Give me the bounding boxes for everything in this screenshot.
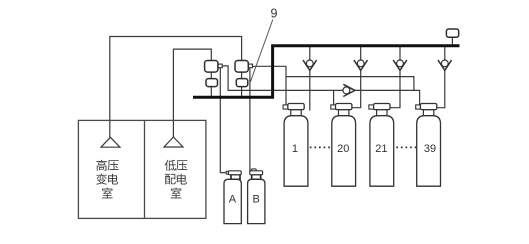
wire: drop from collecting manifold through check valve CV2 to cylinder outlet [352,45,361,108]
node: dotted continuation between cylinder 21 and cylinder 39 [396,146,419,148]
wire: pilot line branch along y=76.6 to drop at x=413.9 joining lower pilot line [286,77,414,91]
node: gas cylinder 20 body [332,116,356,187]
svg-text:20: 20 [337,143,349,155]
node: gas cylinder 21 valve cap [374,104,390,110]
wire: pilot riser from valve V2 actuator tab down to pilot cylinder B [249,68,251,172]
wire: selector valve V2 body interconnect and drop to manifold [241,72,243,97]
node: pilot cylinder B body [248,179,265,223]
node: label 高压变电室 (high-voltage transformer room) [96,160,118,199]
valve U1: selector valve (left) actuator tab [218,64,222,68]
node: gas cylinder 39 neck [423,110,433,116]
node: gas cylinder 1 body [284,116,308,187]
node: gas cylinder 21 neck [377,110,387,116]
node: pressure gauge / alarm on manifold end [446,29,458,37]
valve CV5: flow check valve on pilot line (pointing right) [343,84,355,96]
valve CV1: check valve on cylinder 1 pigtail [303,60,317,70]
wire: drop from collecting manifold through check valve CV1 to cylinder outlet [309,45,311,111]
valve U1: selector valve (left) top body [205,61,218,73]
node: pilot cylinder A neck [231,175,240,180]
svg-text:21: 21 [375,143,387,155]
wire: drop from collecting manifold through check valve CV3 to cylinder outlet [390,45,400,108]
valve U2: selector valve (right) lower body [236,79,248,87]
node: discharge nozzle in high-voltage room [101,137,120,147]
node: pilot cylinder A body [224,179,241,223]
node: protected rooms enclosure [78,120,205,218]
node: pilot cylinder A valve cap [228,171,241,175]
node: discharge nozzle in low-voltage room [164,137,183,147]
node: gas cylinder 1 neck [291,110,301,116]
node: gas cylinder 1 valve tab [283,105,288,109]
wire: partition wall between the two rooms [144,120,146,218]
wire: pilot line from valve V2 tab right, down, feeding cylinder 1 tab [252,66,286,105]
valve CV2: check valve on cylinder 20 pigtail [354,60,368,70]
node: label 低压配电室 (low-voltage distribution room) [165,160,188,199]
node: gas cylinder 1 valve cap [288,104,304,110]
valve U1: selector valve (left) lower body [206,79,218,87]
wire: selector valve V1 body interconnect and drop to manifold [210,72,212,97]
wire: pilot line from valve V1 tab right then down to y=90.4 running right to check valve symbol [222,66,343,91]
node: gas cylinder 20 neck [339,110,349,116]
wire: pilot line continuing right of flow symbol to cylinder 39 tab [355,90,420,105]
node: gas cylinder 39 valve cap [420,104,436,110]
node: gas cylinder 39 body [417,116,441,187]
wire: drop from collecting manifold through check valve CV4 to cylinder outlet [437,45,445,108]
node: gas cylinder 39 valve tab [416,105,421,109]
wire: pipe from low-voltage room nozzle up and over to selector valve V1 top [173,49,211,137]
node: gas cylinder 20 valve cap [336,104,352,110]
node: gas cylinder 21 valve tab [369,105,374,109]
svg-text:9: 9 [271,7,278,21]
node: pilot cylinder A valve nipple [226,171,229,174]
wire: pilot branch down to cylinder 20 tab [333,90,335,105]
svg-text:A: A [229,194,237,206]
node: pilot cylinder B valve cap [250,171,263,175]
valve CV3: check valve on cylinder 21 pigtail [393,60,407,70]
valve CV4: check valve on cylinder 39 pigtail [438,60,452,70]
wire: pressure gauge stem [451,37,453,45]
svg-text:1: 1 [292,143,298,155]
wire: leader line for label 9 pointing to selector valve assembly [250,20,273,84]
wire: pilot riser from valve V1 actuator tab down to pilot cylinder A [220,68,226,173]
svg-text:B: B [253,194,260,206]
node: pilot cylinder B valve knob [251,169,256,174]
svg-text:39: 39 [424,143,436,155]
node: pilot cylinder B neck [252,175,261,180]
valve U2: selector valve (right) top body [235,61,248,73]
wire: pipe from high-voltage room nozzle up and over to selector valve V2 top [110,37,242,138]
node: dotted continuation between cylinder 1 and cylinder 20 [310,146,331,148]
node: gas cylinder 21 body [370,116,394,187]
node: gas cylinder 20 valve tab [331,105,336,109]
wire: thick gas collecting manifold (lower run, riser, upper run) [193,46,460,98]
valve U2: selector valve (right) actuator tab [248,64,252,68]
